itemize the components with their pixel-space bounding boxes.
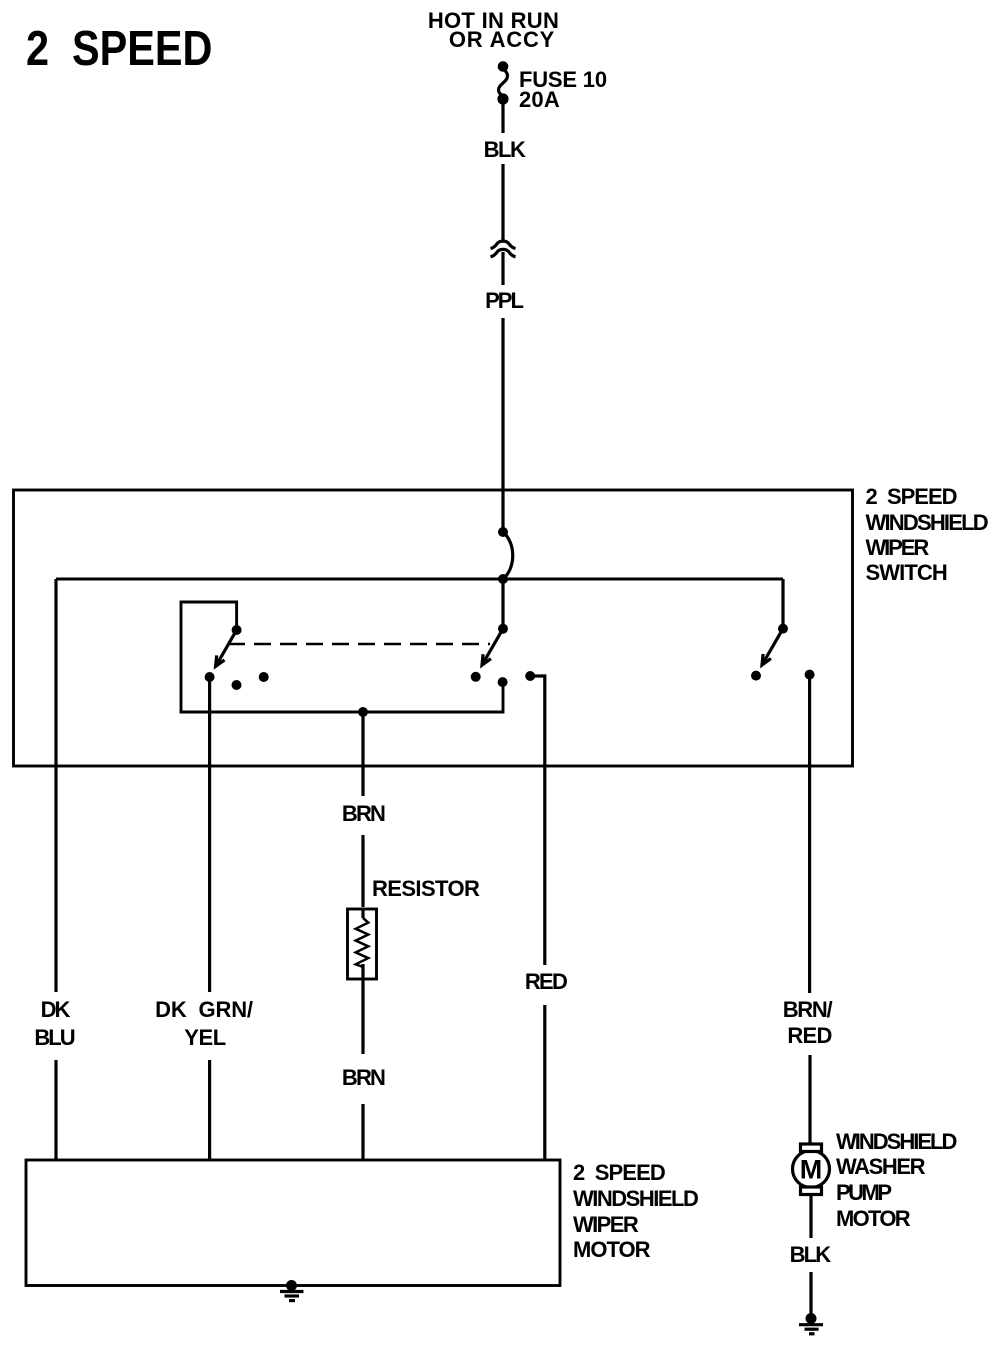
label switch SWITCH [866, 562, 947, 584]
label RED [525, 971, 566, 993]
high speed takeoff dot [525, 671, 535, 681]
label FUSE 10 [519, 69, 607, 91]
label switch WINDSHIELD [866, 512, 987, 534]
label motor WIPER [573, 1214, 637, 1236]
label DK GRN/ [155, 999, 253, 1021]
label motor 2 SPEED [573, 1162, 665, 1184]
mechanical link dashed [228, 643, 490, 646]
wire bus horizontal [56, 578, 783, 581]
label YEL [184, 1027, 226, 1049]
switch blade arc [503, 532, 513, 579]
spare contact dot 1 [232, 680, 242, 690]
label washer WASHER [836, 1156, 924, 1178]
label washer WINDSHIELD [836, 1131, 955, 1153]
label OR ACCY [449, 29, 555, 51]
wire BRN mid [361, 835, 364, 907]
label 20A [519, 89, 560, 111]
speed switch contact dot [471, 672, 481, 682]
washer output dot [805, 670, 815, 680]
label BRN upper [342, 803, 384, 825]
node ignition feed dot [498, 527, 508, 537]
wire BRN lower [361, 1104, 364, 1160]
switch housing box [14, 490, 853, 766]
speed switch pivot dot [498, 624, 508, 634]
ground wiper motor [280, 1280, 304, 1301]
label DK [41, 999, 69, 1021]
label HOT IN RUN [428, 10, 559, 32]
label switch WIPER [866, 537, 928, 559]
wire BRN/RED lower [808, 1055, 811, 1144]
resistor R1 [348, 909, 377, 979]
wiper motor box [26, 1160, 560, 1286]
wire RED upper [530, 676, 545, 965]
motor M2 washer pump [793, 1144, 830, 1195]
label washer PUMP [836, 1182, 890, 1204]
wire BRN below resistor [361, 964, 364, 1054]
connector C100 [491, 241, 516, 257]
label BRN lower [342, 1067, 384, 1089]
wire BLK fuse to label [501, 104, 504, 133]
wire PPL connector to label [501, 252, 504, 285]
wire DK BLU upper [54, 579, 57, 992]
wiper switch blade [216, 630, 237, 666]
label PPL [485, 290, 522, 312]
junction dot BRN [358, 707, 368, 717]
spare contact dot 2 [259, 672, 269, 682]
label switch 2 SPEED [866, 486, 957, 508]
label BLK washer [790, 1244, 830, 1266]
fuse F10 20A [497, 61, 508, 104]
speed switch blade [482, 629, 503, 665]
wiper switch pivot dot [232, 625, 242, 635]
label title 2 SPEED [26, 25, 212, 74]
wire BLK washer upper [809, 1195, 812, 1238]
label BRN/ [783, 999, 832, 1021]
wire BRN/RED upper [808, 675, 811, 993]
wire bus to speed switch pivot [501, 579, 504, 629]
wire PPL label to switch [501, 318, 504, 531]
label RESISTOR [372, 878, 479, 900]
wiper switch contact dot [205, 672, 215, 682]
svg-text:M: M [800, 1155, 823, 1185]
wire BRN upper [361, 712, 364, 796]
wire BLK washer lower [809, 1272, 812, 1314]
wire DK GRN/YEL upper [208, 677, 211, 992]
inner contact frame [181, 602, 503, 712]
washer switch contact dot [751, 671, 761, 681]
label BLU [34, 1027, 73, 1049]
label motor MOTOR [573, 1239, 649, 1261]
wire RED lower [543, 1005, 546, 1160]
washer switch blade [762, 629, 783, 665]
label motor WINDSHIELD [573, 1188, 697, 1210]
wire DK BLU lower [54, 1060, 57, 1160]
washer switch pivot dot [778, 624, 788, 634]
wire DK GRN/YEL lower [208, 1060, 211, 1160]
low speed output dot [498, 677, 508, 687]
label BLK top [484, 139, 525, 161]
wire right switch feed [781, 579, 784, 628]
junction dot on bus [498, 574, 508, 584]
ground washer pump [799, 1313, 823, 1334]
wire BLK label to connector [501, 164, 504, 240]
label RED lower [787, 1025, 831, 1047]
label washer MOTOR [836, 1208, 909, 1230]
